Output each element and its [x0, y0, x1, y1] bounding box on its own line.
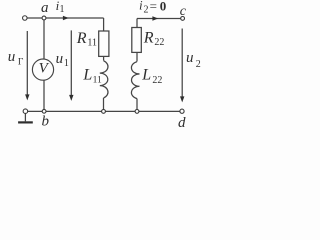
- terminal bottom-left: [23, 109, 28, 114]
- svg-text:c: c: [180, 4, 187, 19]
- svg-text:a: a: [41, 0, 49, 16]
- svg-text:22: 22: [154, 37, 164, 48]
- wire R22 to L22: [136, 52, 138, 61]
- wire L22 to bottom junction: [136, 99, 138, 110]
- wire L11 to bottom junction: [103, 98, 105, 110]
- svg-text:2: 2: [144, 5, 149, 16]
- wire top right to terminal c: [137, 18, 181, 20]
- svg-text:1: 1: [60, 4, 65, 15]
- inductor L22 coil: [131, 62, 139, 99]
- inductor L11 coil: [100, 61, 108, 98]
- ground bar: [18, 121, 33, 123]
- voltmeter source U1 circle: [32, 59, 53, 80]
- svg-text:d: d: [178, 115, 186, 131]
- svg-text:L: L: [141, 67, 151, 84]
- resistor R22: [132, 28, 142, 53]
- svg-text:22: 22: [152, 75, 162, 86]
- wire bottom horizontal: [28, 110, 180, 112]
- wire R11 to L11: [103, 56, 105, 60]
- svg-text:i: i: [139, 0, 143, 13]
- svg-text:u: u: [56, 51, 64, 67]
- svg-text:b: b: [42, 114, 50, 130]
- svg-text:Г: Г: [18, 57, 24, 67]
- svg-text:1: 1: [64, 58, 69, 69]
- wire corner down into R11: [103, 18, 105, 31]
- arrowhead u1: [69, 95, 73, 101]
- wire source bottom to node b: [43, 80, 45, 110]
- svg-text:u: u: [8, 49, 16, 65]
- arrow u2 line: [181, 29, 183, 98]
- junction L22-bottom: [135, 110, 139, 114]
- svg-text:11: 11: [87, 38, 97, 49]
- arrow u1 line: [70, 30, 72, 96]
- arrow u_g line: [26, 31, 28, 96]
- terminal d: [180, 109, 184, 113]
- wire node a down to source: [43, 19, 45, 59]
- svg-text:R: R: [143, 29, 154, 46]
- svg-text:u: u: [186, 50, 194, 66]
- node a circle: [42, 16, 46, 20]
- ground stub: [24, 113, 26, 121]
- svg-text:0: 0: [160, 0, 167, 13]
- svg-text:R: R: [76, 30, 87, 47]
- arrowhead i1: [63, 16, 69, 20]
- arrowhead u2: [180, 96, 184, 102]
- node b circle: [42, 109, 46, 113]
- arrowhead i2: [152, 16, 158, 20]
- resistor R11: [99, 31, 109, 56]
- svg-text:11: 11: [93, 75, 102, 85]
- svg-text:L: L: [82, 67, 92, 84]
- wire top horizontal from left terminal to R11 corner: [27, 17, 103, 19]
- wire corner to R22: [136, 19, 138, 28]
- svg-text:=: =: [150, 0, 157, 13]
- svg-text:2: 2: [196, 59, 201, 70]
- junction L11-bottom: [102, 110, 106, 114]
- terminal c: [181, 17, 185, 21]
- terminal top-left: [23, 16, 28, 21]
- arrowhead u_g: [25, 94, 29, 100]
